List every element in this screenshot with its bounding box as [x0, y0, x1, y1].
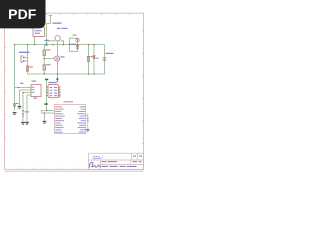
- svg-text:PDF: PDF: [8, 6, 37, 22]
- svg-text:Sheet_1: Sheet_1: [93, 155, 104, 159]
